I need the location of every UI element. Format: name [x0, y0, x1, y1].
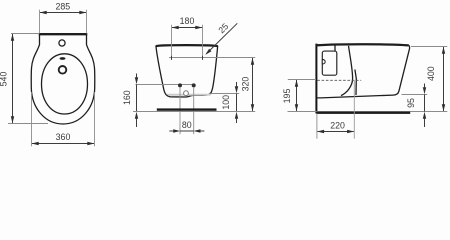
svg-text:160: 160: [122, 90, 132, 105]
svg-text:320: 320: [241, 77, 251, 92]
svg-text:180: 180: [180, 16, 195, 26]
svg-text:400: 400: [426, 66, 436, 81]
svg-text:195: 195: [282, 89, 292, 104]
svg-text:95: 95: [406, 98, 416, 108]
svg-text:540: 540: [0, 72, 9, 87]
svg-text:100: 100: [221, 95, 231, 110]
svg-text:80: 80: [182, 120, 192, 130]
svg-text:360: 360: [56, 132, 71, 142]
svg-text:285: 285: [55, 1, 70, 11]
svg-text:220: 220: [330, 121, 345, 131]
